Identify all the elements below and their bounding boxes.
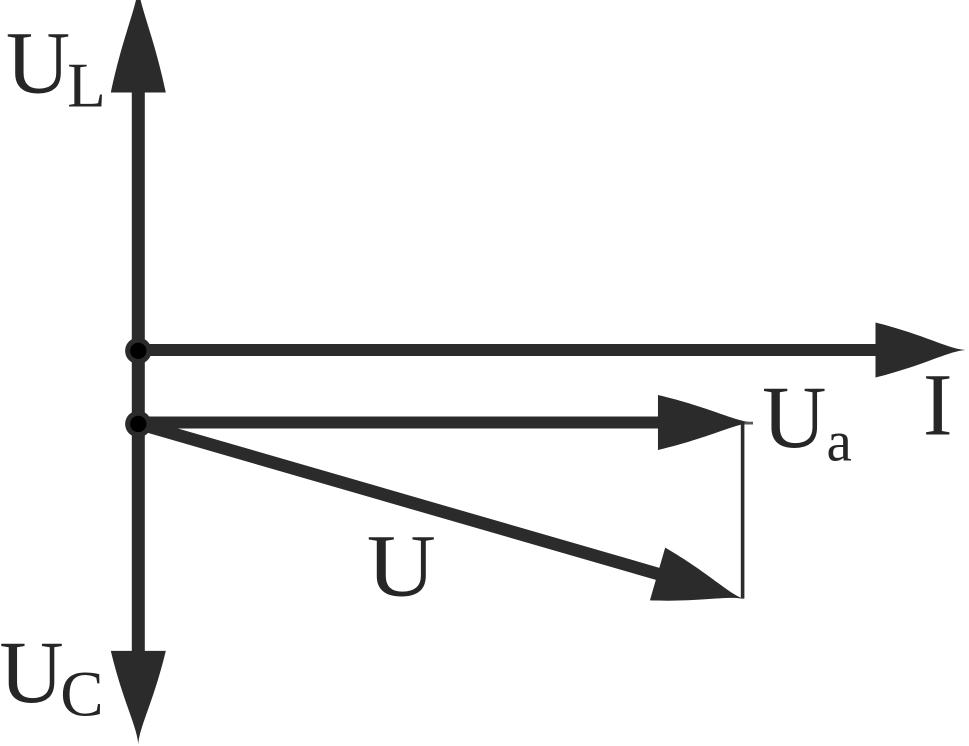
- svg-text:U: U: [0, 624, 64, 722]
- node dot 1 (origin of I axis): [125, 338, 151, 364]
- svg-text:C: C: [60, 659, 103, 731]
- svg-text:a: a: [827, 410, 852, 473]
- arrowhead UC (down): [111, 651, 166, 745]
- node dot 2 (origin of Ua and U): [125, 411, 151, 437]
- arrowhead I (right): [876, 323, 966, 378]
- arrowhead UL (up): [111, 0, 166, 92]
- arrowhead Ua (right): [658, 395, 753, 450]
- vector Ua shaft: [138, 417, 662, 429]
- vector U diagonal shaft: [136, 417, 663, 581]
- svg-text:U: U: [367, 517, 436, 615]
- svg-text:I: I: [923, 357, 953, 455]
- arrowhead U (diagonal): [650, 548, 752, 626]
- axis UL-UC vertical shaft: [132, 60, 145, 690]
- connector line between Ua tip and U tip: [743, 422, 753, 425]
- svg-text:L: L: [67, 50, 105, 120]
- svg-text:U: U: [6, 15, 70, 113]
- axis I horizontal shaft: [138, 344, 878, 356]
- svg-text:U: U: [762, 369, 826, 467]
